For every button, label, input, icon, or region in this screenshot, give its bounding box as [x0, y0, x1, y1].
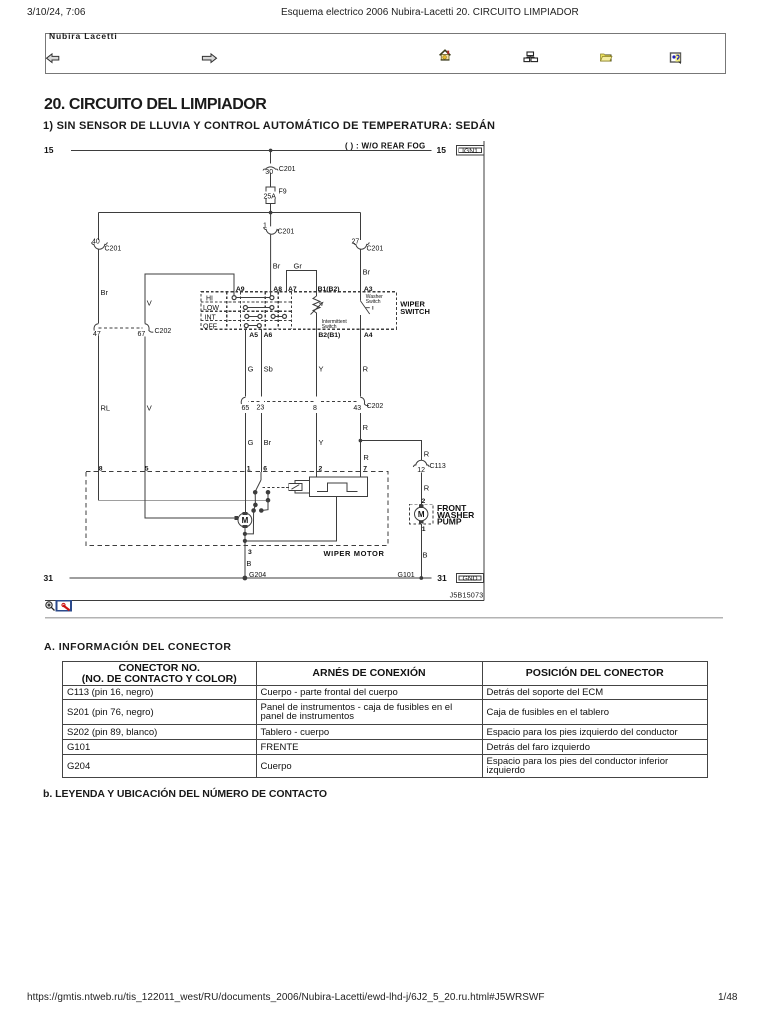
junction cam return: [243, 539, 246, 542]
svg-text:Y: Y: [319, 438, 324, 447]
wire Gr jumper A7 to B1: [287, 271, 317, 296]
svg-text:12: 12: [417, 467, 425, 474]
svg-text:C201: C201: [279, 166, 296, 173]
wire A-D-E: [254, 492, 256, 510]
switch grid dashed rows: [201, 302, 291, 321]
connector C201 pin 1: [264, 227, 279, 234]
svg-text:47: 47: [93, 331, 101, 338]
wire center feed to A8: [270, 213, 272, 298]
park contact A: [253, 491, 257, 495]
switch INT contacts right: [273, 315, 284, 317]
svg-text:M: M: [242, 516, 249, 525]
svg-text:Br: Br: [273, 262, 281, 271]
fuse F9 25A: [266, 187, 275, 203]
svg-text:15: 15: [437, 145, 447, 155]
svg-text:IGN1: IGN1: [462, 148, 478, 155]
wire branch to C113: [360, 441, 421, 505]
wire A4 down: [359, 315, 361, 472]
section heading A: [44, 641, 231, 653]
wire A5 down: [245, 329, 247, 472]
svg-text:SWITCH: SWITCH: [400, 307, 430, 316]
toolbar title Nubira Lacetti: [49, 31, 118, 41]
back arrow icon: [47, 54, 59, 63]
switch LOW contacts: [245, 307, 272, 309]
wire bus horizontal: [99, 212, 361, 214]
wire C down to F: [261, 500, 268, 510]
heading 2: [43, 120, 495, 132]
svg-text:J5B15073: J5B15073: [450, 593, 484, 600]
svg-text:Br: Br: [363, 268, 371, 277]
section heading b: [43, 788, 327, 800]
svg-text:G: G: [248, 365, 254, 374]
svg-text:Br: Br: [264, 438, 272, 447]
junction top rail feed: [269, 149, 273, 153]
svg-text:1: 1: [263, 223, 267, 230]
svg-text:LOW: LOW: [203, 305, 219, 312]
wire B2 down: [316, 315, 318, 472]
svg-text:30: 30: [265, 169, 273, 176]
washer switch blade: [360, 301, 372, 314]
wiper switch dashed box: [201, 292, 396, 330]
schematic svg: [0, 138, 768, 623]
connector C202 lower dashed row: [246, 401, 361, 403]
wiper motor dashed box: [86, 472, 388, 546]
print header title: [281, 7, 579, 18]
wire B-C: [267, 492, 269, 500]
svg-text:A7: A7: [288, 286, 297, 293]
svg-text:C202: C202: [155, 328, 172, 335]
svg-text:A6: A6: [264, 332, 273, 339]
svg-text:M: M: [418, 510, 425, 519]
svg-text:R: R: [424, 483, 430, 492]
help icon: [671, 53, 681, 64]
connector C202 pin 43: [360, 397, 369, 405]
svg-text:31: 31: [437, 573, 447, 583]
connector C202 pin 65: [243, 397, 248, 414]
gray separator line: [45, 617, 723, 619]
svg-text:C202: C202: [367, 403, 384, 410]
switch grid dashed verticals: [227, 292, 292, 330]
svg-text:GND: GND: [462, 576, 477, 583]
print footer url: [27, 992, 545, 1003]
switch INT contacts left: [247, 315, 260, 317]
junction E: [252, 509, 256, 513]
wire C202 dashed row upper: [99, 327, 146, 329]
svg-text:6: 6: [263, 465, 267, 472]
svg-text:Br: Br: [101, 288, 109, 297]
svg-text:7: 7: [363, 465, 367, 472]
wire right rail: [483, 141, 485, 600]
svg-text:WIPER MOTOR: WIPER MOTOR: [323, 549, 384, 558]
power IGN1 box: [456, 145, 484, 155]
svg-text:Switch: Switch: [322, 324, 337, 330]
heading 1: [44, 96, 266, 114]
svg-text:R: R: [363, 365, 369, 374]
connector C201 pin 40: [96, 240, 101, 248]
svg-text:A3: A3: [364, 286, 373, 293]
wire V branch down: [145, 336, 234, 517]
wire A6 down: [261, 329, 263, 472]
svg-text:C201: C201: [105, 246, 122, 253]
junction washer branch: [359, 439, 363, 443]
svg-text:Y: Y: [319, 365, 324, 374]
junction C: [266, 498, 270, 502]
svg-text:OFF: OFF: [203, 324, 217, 331]
svg-text:V: V: [147, 404, 152, 413]
wire pin7 into cam box: [359, 472, 361, 477]
connector C202 pin 47: [96, 324, 101, 337]
connector C201 pin 30: [263, 167, 278, 171]
wire pump to ground: [420, 524, 422, 578]
wire right branch down: [359, 213, 361, 301]
connector C113 pin 12: [419, 460, 424, 473]
zoom-in icon: [46, 602, 55, 611]
wire motor bottom to ground: [244, 528, 246, 578]
svg-text:23: 23: [257, 404, 265, 411]
park cam box: [309, 477, 367, 497]
svg-text:Switch: Switch: [366, 299, 381, 305]
svg-text:8: 8: [313, 405, 317, 412]
park switch dashed link: [263, 486, 288, 488]
svg-text:1: 1: [247, 465, 251, 472]
svg-text:R: R: [363, 453, 369, 462]
svg-text:2: 2: [319, 465, 323, 472]
svg-text:27: 27: [352, 239, 360, 246]
svg-text:C113: C113: [430, 463, 446, 470]
svg-text:C201: C201: [278, 229, 295, 236]
wire C201-30 to fuse F9: [270, 173, 272, 188]
svg-text:INT: INT: [205, 315, 217, 322]
svg-text:A4: A4: [364, 332, 373, 339]
svg-text:A9: A9: [236, 286, 245, 293]
switch OFF contacts: [246, 325, 259, 327]
ground G101 junction: [419, 576, 423, 580]
forward arrow icon: [202, 54, 216, 63]
svg-text:25A: 25A: [264, 193, 277, 200]
wiper motor M: [238, 513, 252, 527]
svg-text:G: G: [248, 438, 254, 447]
svg-text:Gr: Gr: [294, 262, 303, 271]
sitemap icon: [524, 52, 538, 62]
connector C201 pin 27: [358, 240, 363, 248]
svg-text:8: 8: [99, 465, 103, 472]
svg-text:RL: RL: [101, 404, 111, 413]
wire fuse to bus junction: [270, 203, 272, 212]
toolbar frame: [45, 33, 726, 74]
wire left branch down: [98, 213, 100, 472]
svg-text:A5: A5: [249, 332, 258, 339]
svg-text:31: 31: [44, 573, 54, 583]
print header date: [27, 7, 85, 18]
wire top rail 15: [71, 149, 432, 151]
wire feed down to C201-30: [270, 150, 272, 163]
park contact B: [266, 491, 270, 495]
wire pin8 to park contact: [99, 472, 269, 500]
connector C202 pin 67: [143, 324, 148, 337]
svg-text:B: B: [246, 559, 251, 568]
junction bus: [269, 211, 273, 215]
svg-text:15: 15: [44, 145, 54, 155]
svg-text:F9: F9: [279, 189, 287, 196]
svg-text:V: V: [147, 299, 152, 308]
junction motor bottom: [243, 532, 246, 535]
pump motor M: [415, 507, 428, 520]
home icon: [440, 50, 451, 60]
svg-text:1: 1: [422, 526, 426, 533]
cam waveform: [317, 483, 358, 492]
intermittent switch variable resistor: [313, 296, 320, 315]
svg-text:PUMP: PUMP: [437, 516, 462, 526]
wire pin6 stub: [260, 472, 262, 480]
ground G204 junction: [243, 576, 247, 580]
svg-text:( ) : W/O REAR FOG: ( ) : W/O REAR FOG: [345, 142, 426, 151]
svg-text:B2(B1): B2(B1): [318, 332, 340, 339]
svg-text:R: R: [424, 450, 430, 459]
toolbar icons svg: [45, 33, 725, 73]
zoom-pan icon: [57, 601, 72, 611]
svg-text:C201: C201: [367, 246, 384, 253]
svg-text:65: 65: [242, 405, 250, 412]
power GND box: [457, 573, 484, 582]
front washer pump dashed box: [410, 504, 434, 524]
park switch blade: [255, 480, 261, 491]
svg-text:43: 43: [353, 405, 361, 412]
print footer page number: [718, 992, 737, 1003]
svg-text:3: 3: [248, 549, 252, 556]
svg-text:67: 67: [138, 331, 146, 338]
svg-text:R: R: [363, 423, 369, 432]
wire cam return horizontal: [245, 497, 336, 541]
junction D: [254, 503, 258, 507]
junction F: [260, 509, 264, 513]
wire V branch: C202-67 up and over to A9: [145, 274, 234, 324]
switch HI contacts: [234, 297, 272, 299]
svg-text:B1(B2): B1(B2): [318, 286, 340, 293]
connector info table: [62, 661, 708, 778]
folder icon: [601, 54, 613, 62]
svg-text:40: 40: [92, 239, 100, 246]
wire bottom frame border: [45, 599, 484, 601]
svg-text:B: B: [423, 551, 428, 560]
cam follower plug: [289, 483, 302, 490]
svg-text:5: 5: [145, 465, 149, 472]
wire E down to motor bottom row: [245, 511, 254, 534]
svg-text:Sb: Sb: [264, 365, 273, 374]
svg-text:A8: A8: [273, 286, 282, 293]
wire pin2 into cam box: [316, 472, 318, 477]
wire pin1 to motor: [245, 472, 247, 513]
svg-text:HI: HI: [206, 296, 213, 303]
